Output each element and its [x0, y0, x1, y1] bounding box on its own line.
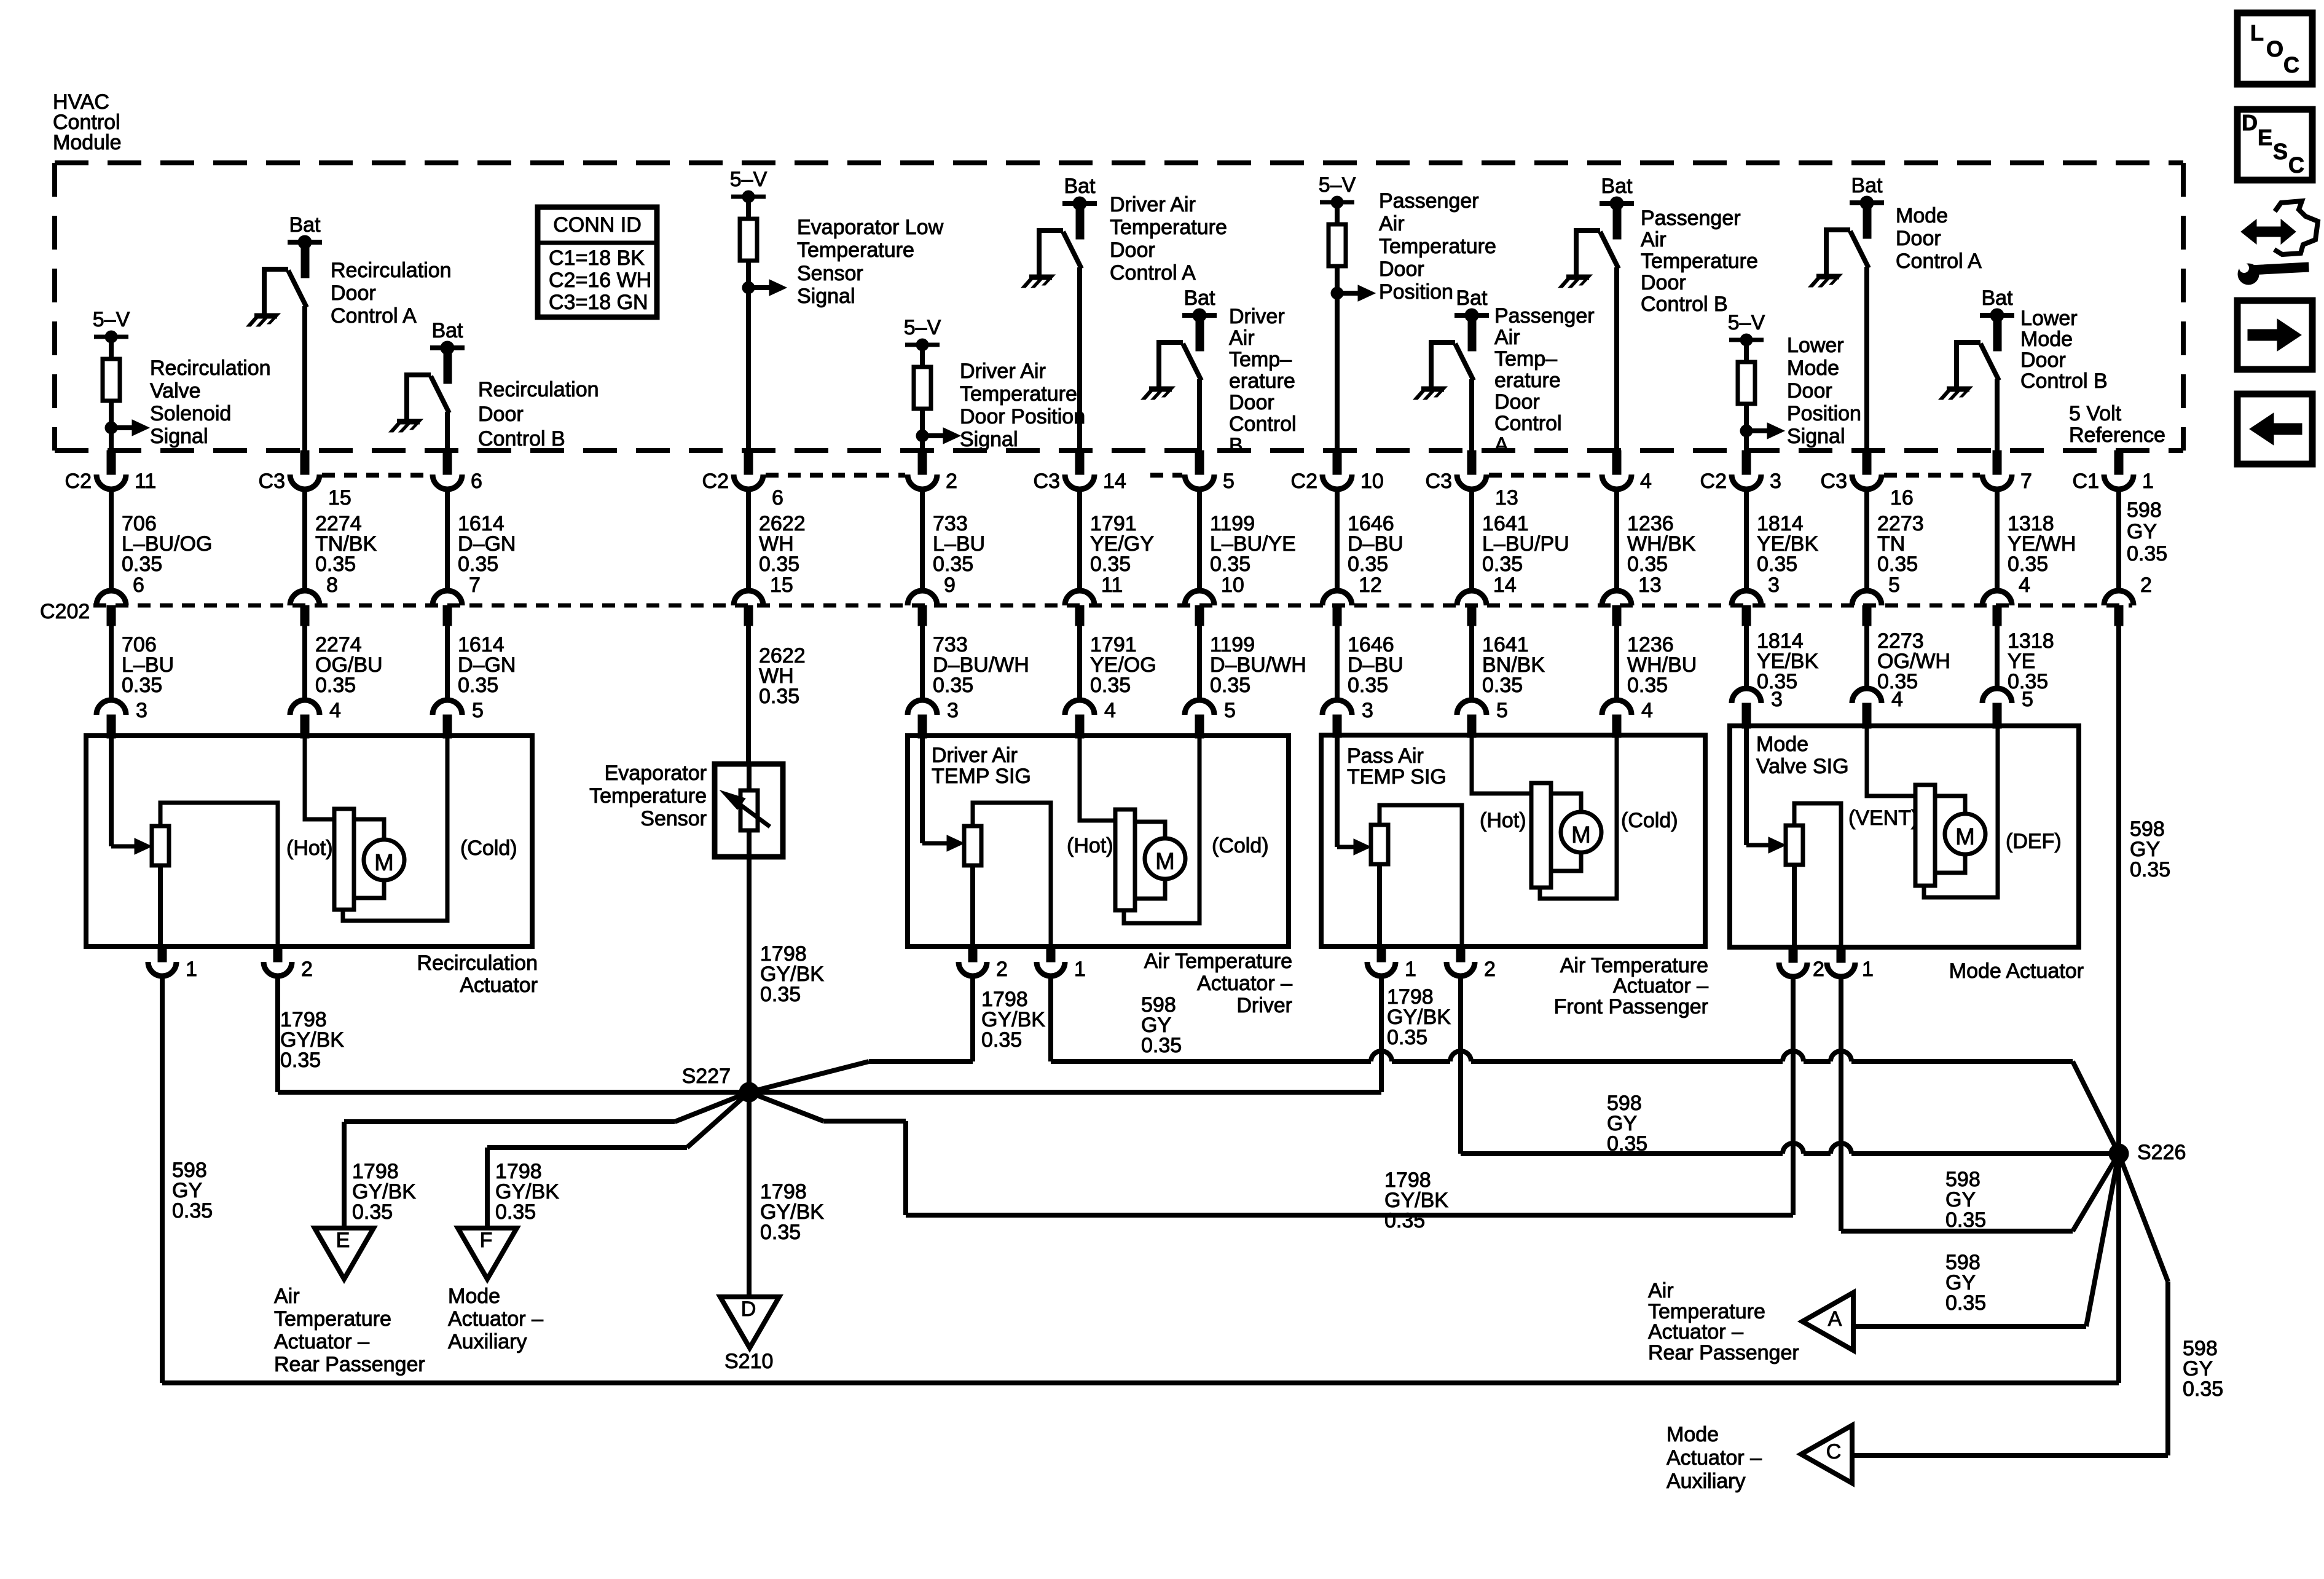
- svg-text:(DEF): (DEF): [2006, 830, 2062, 853]
- Bat switch circuit at x=3038: [1808, 174, 1982, 451]
- svg-text:0.35: 0.35: [1210, 553, 1250, 576]
- svg-text:Reference: Reference: [2069, 423, 2165, 447]
- svg-text:0.35: 0.35: [981, 1028, 1022, 1052]
- recirc potentiometer feed wire pin3: [111, 736, 152, 854]
- svg-text:Door: Door: [1494, 390, 1540, 414]
- svg-text:Auxiliary: Auxiliary: [1666, 1470, 1745, 1493]
- actuator connector pin 4 column 2: [290, 699, 341, 738]
- mode potentiometer: [1786, 803, 1841, 947]
- svg-text:0.35: 0.35: [760, 1221, 801, 1244]
- C202 in-line connector column 13: [1982, 591, 2012, 626]
- C202 in-line connector column 5: [908, 591, 937, 626]
- connector pin stub C column 3: [433, 451, 482, 493]
- svg-text:0.35: 0.35: [1877, 553, 1918, 576]
- svg-text:(Hot): (Hot): [1067, 834, 1113, 857]
- svg-text:6: 6: [772, 486, 783, 510]
- svg-text:Front Passenger: Front Passenger: [1554, 995, 1708, 1018]
- svg-text:Actuator –: Actuator –: [1613, 974, 1708, 998]
- svg-text:1: 1: [186, 958, 197, 981]
- 5-V supply and resistor signal circuit at x=2176: [1319, 173, 1496, 451]
- svg-text:0.35: 0.35: [1090, 674, 1131, 697]
- splice S226: [2109, 1141, 2186, 1164]
- recirc potentiometer: [152, 803, 278, 947]
- wire 2622 to evaporator sensor: [748, 626, 806, 764]
- connector pin stub C column 14: [2073, 451, 2154, 493]
- svg-text:0.35: 0.35: [1387, 1026, 1427, 1049]
- svg-text:5–V: 5–V: [93, 308, 130, 331]
- svg-text:Driver Air: Driver Air: [1110, 193, 1196, 216]
- svg-text:M: M: [1571, 822, 1591, 848]
- svg-text:0.35: 0.35: [458, 553, 498, 576]
- svg-text:Bat: Bat: [1981, 286, 2013, 310]
- Bat switch circuit at x=2395: [1413, 286, 1595, 457]
- driver motor hot wire pin4: [1080, 736, 1115, 821]
- C202 dashed line: [93, 604, 2132, 608]
- svg-text:0.35: 0.35: [1627, 553, 1668, 576]
- svg-text:Mode: Mode: [1756, 733, 1808, 756]
- driver Hot Cold labels: [1067, 834, 1269, 857]
- svg-text:0.35: 0.35: [1945, 1208, 1986, 1232]
- Bat switch circuit at x=3250: [1939, 286, 2108, 451]
- actuator connector pin 5 column 3: [433, 699, 484, 738]
- Bat switch circuit at x=728: [389, 319, 599, 451]
- svg-text:0.35: 0.35: [1607, 1132, 1647, 1156]
- svg-text:M: M: [1955, 824, 1975, 850]
- wire 1236 lower segment column 10: [1617, 626, 1697, 700]
- svg-text:Actuator –: Actuator –: [1197, 972, 1292, 995]
- mode motor M: [1915, 726, 1998, 897]
- svg-text:0.35: 0.35: [933, 674, 973, 697]
- F destination label: [448, 1285, 543, 1353]
- wire 706 lower segment column 1: [111, 626, 174, 700]
- svg-text:Auxiliary: Auxiliary: [448, 1330, 527, 1353]
- svg-text:0.35: 0.35: [2127, 542, 2167, 565]
- svg-text:0.35: 0.35: [933, 553, 973, 576]
- svg-text:Bat: Bat: [431, 319, 463, 342]
- 5-V supply and resistor signal circuit at x=1501: [904, 316, 1085, 451]
- wire 1318 upper segment column 13: [1997, 489, 2076, 597]
- svg-text:5–V: 5–V: [730, 168, 767, 191]
- svg-text:Door Position: Door Position: [960, 405, 1085, 428]
- svg-text:D: D: [741, 1297, 756, 1321]
- svg-text:Control B: Control B: [1641, 293, 1728, 316]
- connector pin stub C column 12: [1821, 451, 1914, 510]
- Bat switch circuit at x=1757: [1021, 175, 1227, 451]
- svg-text:1: 1: [1862, 958, 1874, 981]
- wire driver pin1 598 to S226: [1051, 976, 2119, 1154]
- svg-text:14: 14: [1493, 573, 1517, 597]
- C202 in-line connector column 8: [1322, 591, 1352, 626]
- wire 598 bottom run to S226: [162, 1154, 2119, 1383]
- wire 1791 upper segment column 6: [1080, 489, 1154, 597]
- svg-text:0.35: 0.35: [1141, 1034, 1182, 1057]
- wire mode pin1 598 to S226: [1841, 976, 2119, 1232]
- svg-text:Bat: Bat: [1851, 174, 1883, 197]
- svg-text:Temp–: Temp–: [1229, 348, 1292, 371]
- svg-text:Air: Air: [1494, 326, 1520, 349]
- svg-text:Mode: Mode: [1787, 356, 1839, 380]
- wire 1199 upper segment column 7: [1199, 489, 1296, 597]
- svg-text:0.35: 0.35: [760, 983, 801, 1006]
- wire S227 to mode pin2: [749, 976, 1793, 1232]
- svg-text:Door: Door: [1641, 271, 1686, 294]
- svg-text:C: C: [1826, 1440, 1842, 1463]
- svg-text:(Cold): (Cold): [460, 837, 517, 860]
- svg-text:C2: C2: [65, 470, 92, 493]
- svg-text:Door: Door: [1229, 391, 1274, 414]
- svg-text:Lower: Lower: [1787, 334, 1844, 357]
- driver box TEMP SIG label: [932, 744, 1031, 788]
- connector pin stub C column 9: [1426, 451, 1518, 510]
- svg-text:Air: Air: [274, 1285, 300, 1308]
- svg-text:GY: GY: [2127, 520, 2157, 543]
- svg-text:4: 4: [2019, 573, 2030, 597]
- HVAC Control Module title: [53, 90, 122, 154]
- mode potentiometer feed wire pin3: [1746, 726, 1786, 853]
- actuator connector pin 3 column 8: [1322, 699, 1373, 738]
- svg-text:10: 10: [1360, 470, 1384, 493]
- svg-text:Actuator –: Actuator –: [1648, 1320, 1743, 1344]
- svg-text:Temperature: Temperature: [797, 238, 914, 262]
- actuator connector pin 3 column 1: [96, 699, 147, 738]
- svg-text:erature: erature: [1229, 369, 1295, 393]
- svg-text:0.35: 0.35: [759, 553, 799, 576]
- connector pin stub C column 4: [702, 451, 783, 510]
- svg-text:Control: Control: [1229, 412, 1297, 436]
- wire S227 to passenger pin1: [749, 976, 1451, 1092]
- svg-text:(Cold): (Cold): [1212, 834, 1269, 857]
- wire 1791 lower segment column 6: [1080, 626, 1156, 700]
- recirc pin 1 and 2 connectors: [148, 947, 313, 981]
- Air Temperature Actuator Driver label: [1144, 950, 1292, 1017]
- svg-text:Signal: Signal: [960, 428, 1018, 451]
- wire 1641 lower segment column 9: [1472, 626, 1545, 700]
- svg-text:E: E: [336, 1229, 350, 1252]
- svg-text:Recirculation: Recirculation: [331, 259, 452, 282]
- C202 in-line connector column 7: [1185, 591, 1214, 626]
- svg-text:Valve: Valve: [150, 379, 201, 403]
- driver potentiometer feed wire pin3: [922, 736, 964, 851]
- svg-text:2: 2: [996, 958, 1008, 981]
- splice S227: [682, 1065, 759, 1102]
- svg-text:2: 2: [1813, 958, 1824, 981]
- svg-text:0.35: 0.35: [1348, 674, 1388, 697]
- svg-text:0.35: 0.35: [315, 674, 356, 697]
- svg-text:Signal: Signal: [150, 425, 208, 448]
- svg-text:C3: C3: [259, 470, 285, 493]
- svg-text:2: 2: [1484, 958, 1496, 981]
- passenger Hot Cold labels: [1480, 809, 1678, 832]
- svg-text:5–V: 5–V: [904, 316, 941, 339]
- left arrow icon box: [2237, 394, 2312, 464]
- svg-text:6: 6: [471, 470, 482, 493]
- svg-text:C2=16 WH: C2=16 WH: [549, 269, 651, 292]
- svg-text:3: 3: [1362, 699, 1373, 722]
- svg-text:0.35: 0.35: [122, 553, 162, 576]
- svg-text:Mode: Mode: [1666, 1423, 1719, 1446]
- svg-text:2: 2: [301, 958, 313, 981]
- svg-text:0.35: 0.35: [172, 1199, 213, 1223]
- wire 598 upper segment column 14: [2119, 489, 2167, 597]
- actuator connector pin 4 column 12: [1852, 688, 1903, 728]
- svg-text:Actuator –: Actuator –: [448, 1307, 543, 1331]
- svg-text:Mode Actuator: Mode Actuator: [1949, 959, 2084, 983]
- svg-text:Position: Position: [1379, 280, 1453, 304]
- connector pin stub C column 10: [1602, 451, 1652, 493]
- passenger pin 1 and 2 connectors: [1367, 947, 1496, 981]
- svg-text:Evaporator: Evaporator: [605, 762, 707, 785]
- svg-text:Control B: Control B: [478, 427, 565, 451]
- svg-text:Actuator –: Actuator –: [274, 1330, 369, 1353]
- svg-text:0.35: 0.35: [2130, 858, 2170, 881]
- svg-text:5: 5: [2022, 688, 2033, 711]
- svg-text:erature: erature: [1494, 369, 1561, 392]
- wire 706 upper segment column 1: [111, 489, 212, 597]
- svg-text:CONN ID: CONN ID: [553, 213, 642, 237]
- svg-text:3: 3: [1771, 688, 1783, 711]
- passenger box TEMP SIG label: [1347, 744, 1447, 789]
- C202 in-line connector column 4: [734, 591, 763, 626]
- C202 in-line connector column 2: [290, 591, 320, 626]
- driver pin 2 and 1 connectors: [959, 947, 1086, 981]
- svg-text:Position: Position: [1787, 402, 1861, 425]
- svg-text:12: 12: [1359, 573, 1382, 597]
- wire 1614 lower segment column 3: [447, 626, 516, 700]
- DESC icon box: [2237, 109, 2312, 180]
- svg-text:0.35: 0.35: [352, 1200, 393, 1224]
- svg-text:Actuator –: Actuator –: [1666, 1446, 1762, 1470]
- svg-text:(VENT): (VENT): [1848, 806, 1918, 830]
- wire 2273 lower segment column 12: [1867, 626, 1950, 693]
- wire 1614 upper segment column 3: [447, 489, 516, 597]
- wire recirc pin2 to S227: [278, 976, 749, 1092]
- svg-text:(Hot): (Hot): [1480, 809, 1526, 832]
- wire 1646 upper segment column 8: [1337, 489, 1403, 597]
- connector C2 body dashed link (evap/driver pos): [766, 473, 905, 478]
- svg-text:C3: C3: [1821, 470, 1847, 493]
- svg-text:598: 598: [2127, 498, 2162, 522]
- svg-text:Air: Air: [1648, 1279, 1674, 1302]
- wire 1814 upper segment column 11: [1746, 489, 1818, 597]
- recirc motor hot wire pin4: [305, 736, 334, 819]
- svg-text:Bat: Bat: [1601, 175, 1633, 198]
- svg-text:1: 1: [2142, 470, 2154, 493]
- CONN ID table: [538, 207, 657, 317]
- Mode Actuator box: [1730, 726, 2079, 947]
- svg-text:Rear Passenger: Rear Passenger: [274, 1353, 425, 1376]
- wire 2274 lower segment column 2: [305, 626, 383, 700]
- right arrow icon box: [2237, 301, 2312, 369]
- connector C3 body dashed link (mode): [1884, 473, 1980, 478]
- svg-text:Temp–: Temp–: [1494, 347, 1557, 371]
- 5 Volt Reference label: [2069, 402, 2165, 447]
- C202 in-line connector column 9: [1457, 591, 1486, 626]
- svg-text:15: 15: [328, 486, 351, 510]
- svg-text:0.35: 0.35: [1090, 553, 1131, 576]
- svg-text:3: 3: [1770, 470, 1781, 493]
- svg-text:C202: C202: [40, 600, 90, 623]
- 5-V supply and resistor signal circuit at x=2842: [1728, 311, 1861, 451]
- svg-text:Air: Air: [1641, 228, 1666, 251]
- svg-text:Bat: Bat: [1456, 286, 1488, 310]
- HVAC control module dashed box: [55, 163, 2183, 451]
- wire 1318 lower segment column 13: [1997, 626, 2054, 693]
- Bat switch circuit at x=2631: [1558, 175, 1758, 451]
- svg-text:0.35: 0.35: [280, 1049, 321, 1072]
- svg-text:Evaporator Low: Evaporator Low: [797, 216, 944, 239]
- svg-text:15: 15: [770, 573, 793, 597]
- svg-text:Driver: Driver: [1229, 305, 1285, 328]
- svg-text:Signal: Signal: [1787, 425, 1845, 448]
- svg-text:0.35: 0.35: [495, 1200, 536, 1224]
- wire S227 to E triangle: [344, 1092, 749, 1228]
- svg-text:0.35: 0.35: [315, 553, 356, 576]
- svg-text:Door: Door: [1110, 238, 1155, 262]
- svg-text:4: 4: [1104, 699, 1116, 722]
- svg-text:Valve SIG: Valve SIG: [1756, 755, 1849, 778]
- A destination label: [1648, 1279, 1799, 1364]
- svg-text:Air: Air: [1379, 212, 1405, 235]
- svg-text:0.35: 0.35: [2008, 553, 2048, 576]
- C202 in-line connector column 6: [1065, 591, 1094, 626]
- connector C3 body dashed link (recirc): [322, 473, 430, 478]
- wire 1798 GY/BK sensor to S227: [749, 857, 824, 1092]
- connector pin stub C column 13: [1982, 451, 2032, 493]
- svg-text:1: 1: [1405, 958, 1416, 981]
- svg-text:Door: Door: [2020, 348, 2066, 372]
- svg-text:Door: Door: [1787, 379, 1832, 403]
- wire S227 to F triangle: [487, 1092, 749, 1228]
- svg-text:Temperature: Temperature: [274, 1307, 391, 1331]
- svg-text:A: A: [1828, 1307, 1842, 1331]
- svg-text:2: 2: [946, 470, 957, 493]
- svg-text:1: 1: [1074, 958, 1086, 981]
- svg-text:Door: Door: [1379, 258, 1424, 281]
- mode pin 2 and 1 connectors: [1779, 947, 1874, 981]
- actuator connector pin 5 column 13: [1982, 688, 2033, 728]
- svg-text:(Cold): (Cold): [1621, 809, 1678, 832]
- svg-text:Temperature: Temperature: [589, 784, 707, 808]
- svg-text:Recirculation: Recirculation: [478, 378, 599, 401]
- A connector triangle: [1802, 1293, 1853, 1350]
- wire 1798 S227 down to S210 D triangle: [749, 1092, 824, 1297]
- svg-text:Door: Door: [331, 282, 376, 305]
- evaporator temperature sensor label: [589, 762, 707, 830]
- svg-text:Solenoid: Solenoid: [150, 402, 231, 425]
- svg-text:4: 4: [1640, 470, 1652, 493]
- wire 2622 upper segment column 4: [748, 489, 806, 597]
- mode VENT DEF labels: [1848, 806, 2062, 853]
- svg-text:C1: C1: [2073, 470, 2099, 493]
- Air Temperature Actuator Front Passenger label: [1554, 954, 1708, 1018]
- C202 in-line connector column 3: [433, 591, 462, 626]
- svg-text:L: L: [2250, 20, 2264, 45]
- svg-text:5–V: 5–V: [1319, 173, 1356, 197]
- wire 2273 upper segment column 12: [1867, 489, 1924, 597]
- svg-text:3: 3: [1768, 573, 1780, 597]
- svg-text:5: 5: [1223, 470, 1235, 493]
- svg-text:A: A: [1494, 433, 1509, 457]
- wire 733 upper segment column 5: [922, 489, 985, 597]
- svg-text:Control A: Control A: [331, 304, 417, 328]
- actuator connector pin 4 column 10: [1602, 699, 1653, 738]
- actuator connector pin 3 column 11: [1732, 688, 1783, 728]
- svg-text:0.35: 0.35: [1482, 674, 1523, 697]
- svg-text:0.35: 0.35: [1348, 553, 1388, 576]
- svg-text:Door: Door: [478, 403, 524, 426]
- C202 connector label: [40, 600, 90, 623]
- wire 733 lower segment column 5: [922, 626, 1029, 700]
- actuator connector pin 5 column 7: [1185, 699, 1236, 738]
- driver potentiometer: [964, 803, 1051, 947]
- Air Temperature Actuator Driver box: [908, 736, 1289, 947]
- connector pin stub C column 11: [1700, 451, 1781, 493]
- E connector triangle: [315, 1228, 374, 1279]
- evaporator temperature sensor box: [715, 764, 783, 857]
- svg-text:Recirculation: Recirculation: [417, 951, 538, 975]
- wire 1814 lower segment column 11: [1746, 626, 1818, 693]
- wire A triangle 598 to S226: [1853, 1154, 2119, 1326]
- recirc motor M: [334, 736, 447, 921]
- svg-text:5–V: 5–V: [1728, 311, 1765, 334]
- svg-text:Bat: Bat: [1184, 286, 1215, 310]
- svg-text:0.35: 0.35: [2183, 1377, 2223, 1401]
- svg-text:S226: S226: [2137, 1141, 2186, 1164]
- svg-text:4: 4: [1891, 688, 1903, 711]
- svg-text:M: M: [374, 850, 394, 876]
- svg-text:0.35: 0.35: [1757, 553, 1797, 576]
- svg-text:Rear Passenger: Rear Passenger: [1648, 1341, 1799, 1364]
- C destination label: [1666, 1423, 1762, 1493]
- svg-text:Sensor: Sensor: [797, 262, 863, 285]
- svg-text:5: 5: [472, 699, 484, 722]
- Recirculation Actuator box: [86, 736, 532, 947]
- wire recirc pin1 598 GY down: [162, 976, 213, 1383]
- connector pin stub C column 1: [65, 451, 157, 493]
- svg-text:10: 10: [1221, 573, 1244, 597]
- svg-text:Air: Air: [1229, 326, 1255, 350]
- svg-text:16: 16: [1890, 486, 1914, 510]
- wire driver pin2 to S227: [749, 976, 1045, 1092]
- connector pin stub C column 7: [1185, 451, 1235, 493]
- connector pin stub C column 8: [1291, 451, 1384, 493]
- C connector triangle: [1801, 1425, 1852, 1483]
- svg-text:Pass Air: Pass Air: [1347, 744, 1424, 768]
- Recirculation Actuator label: [417, 951, 538, 997]
- svg-text:6: 6: [133, 573, 144, 597]
- svg-text:Temperature: Temperature: [1110, 216, 1227, 239]
- svg-text:5: 5: [1888, 573, 1900, 597]
- svg-text:0.35: 0.35: [759, 685, 799, 708]
- C202 in-line connector column 1: [96, 591, 126, 626]
- svg-text:Mode: Mode: [448, 1285, 500, 1308]
- svg-text:Driver Air: Driver Air: [960, 360, 1046, 383]
- svg-text:5: 5: [1224, 699, 1236, 722]
- passenger motor hot wire pin5: [1472, 735, 1531, 793]
- D connector triangle: [720, 1297, 779, 1348]
- svg-text:3: 3: [947, 699, 959, 722]
- svg-text:TEMP SIG: TEMP SIG: [1347, 765, 1447, 789]
- svg-text:0.35: 0.35: [1384, 1209, 1425, 1232]
- svg-text:5 Volt: 5 Volt: [2069, 402, 2122, 425]
- C202 in-line connector column 11: [1732, 591, 1761, 626]
- svg-text:E: E: [2258, 125, 2272, 150]
- svg-text:Module: Module: [53, 131, 122, 154]
- wire C triangle 598 to S226: [1853, 1154, 2223, 1455]
- svg-text:0.35: 0.35: [1482, 553, 1523, 576]
- svg-text:Control A: Control A: [1896, 250, 1982, 273]
- svg-text:C3: C3: [1426, 470, 1452, 493]
